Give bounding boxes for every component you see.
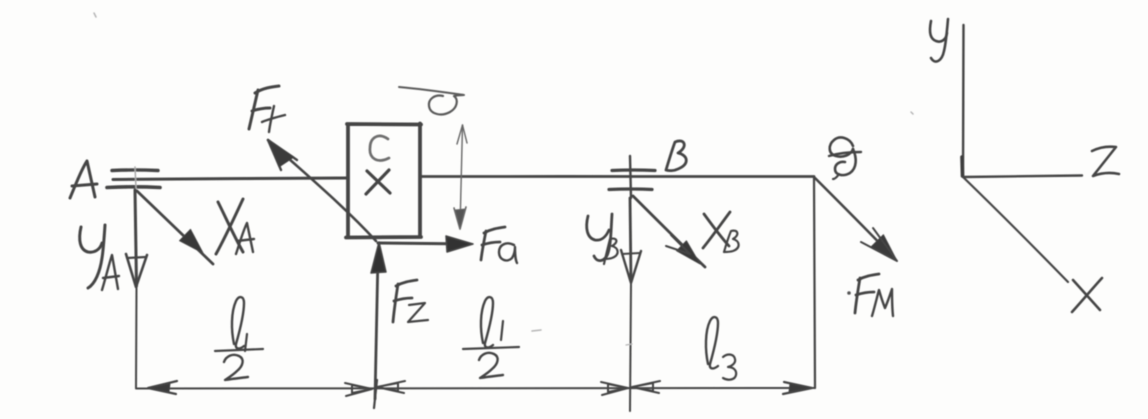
component box C [346, 124, 421, 238]
force XA arrow (diagonal down-right at A) [137, 191, 213, 264]
force Fa arrow (horizontal right) [378, 236, 473, 252]
label D (script) [829, 138, 861, 179]
label Fr [393, 280, 428, 322]
dimension tick at Fr [374, 380, 377, 408]
dimension line bottom [136, 387, 814, 390]
label Z axis [1092, 147, 1119, 176]
extension line A down to dimension line [135, 286, 138, 388]
label yB [587, 214, 618, 264]
dimension arrow left end [148, 381, 177, 394]
label Ft [249, 86, 285, 132]
label l3 [706, 317, 736, 380]
coordinate axis x [963, 177, 1068, 282]
dimension arrows at B tick [601, 381, 660, 395]
wire shaft segment A to box [113, 178, 347, 180]
extension line B down through dimension line [630, 283, 631, 411]
label B [666, 141, 686, 171]
coordinate axis y [962, 25, 964, 177]
support B (bearing) [609, 156, 655, 198]
label yA [80, 225, 119, 290]
label C [370, 136, 389, 160]
label X axis [1072, 278, 1102, 312]
sigma bar label [399, 87, 464, 114]
support A (bearing) [107, 167, 160, 188]
dimension double arrow at sigma [454, 125, 467, 229]
force Ft arrow (diagonal up-left) [268, 140, 376, 241]
force XB arrow (diagonal down-right at B) [633, 196, 705, 267]
dimension arrows at Fr tick [345, 381, 405, 396]
label A [70, 161, 97, 198]
force Fr arrow (vertical up under box) [371, 242, 386, 399]
wire shaft segment box to D [420, 175, 814, 178]
label fraction l1/2 middle [463, 297, 519, 378]
label XA [216, 199, 254, 254]
faint paper specks [94, 13, 913, 345]
coordinate axis z [963, 176, 1082, 178]
force YB arrow (vertical down at B) [621, 198, 641, 283]
cross mark at C [366, 170, 390, 194]
force FM arrow (diagonal down-right at D) [815, 178, 897, 261]
force YA arrow (vertical down at A) [126, 190, 147, 287]
label FM [847, 274, 893, 316]
label y axis [930, 19, 948, 62]
label XB [703, 212, 739, 252]
extension line D down to dimension line [814, 177, 815, 388]
dimension arrow right end [783, 382, 812, 394]
label fraction l1/2 left [215, 297, 263, 380]
label Fa [481, 227, 517, 263]
